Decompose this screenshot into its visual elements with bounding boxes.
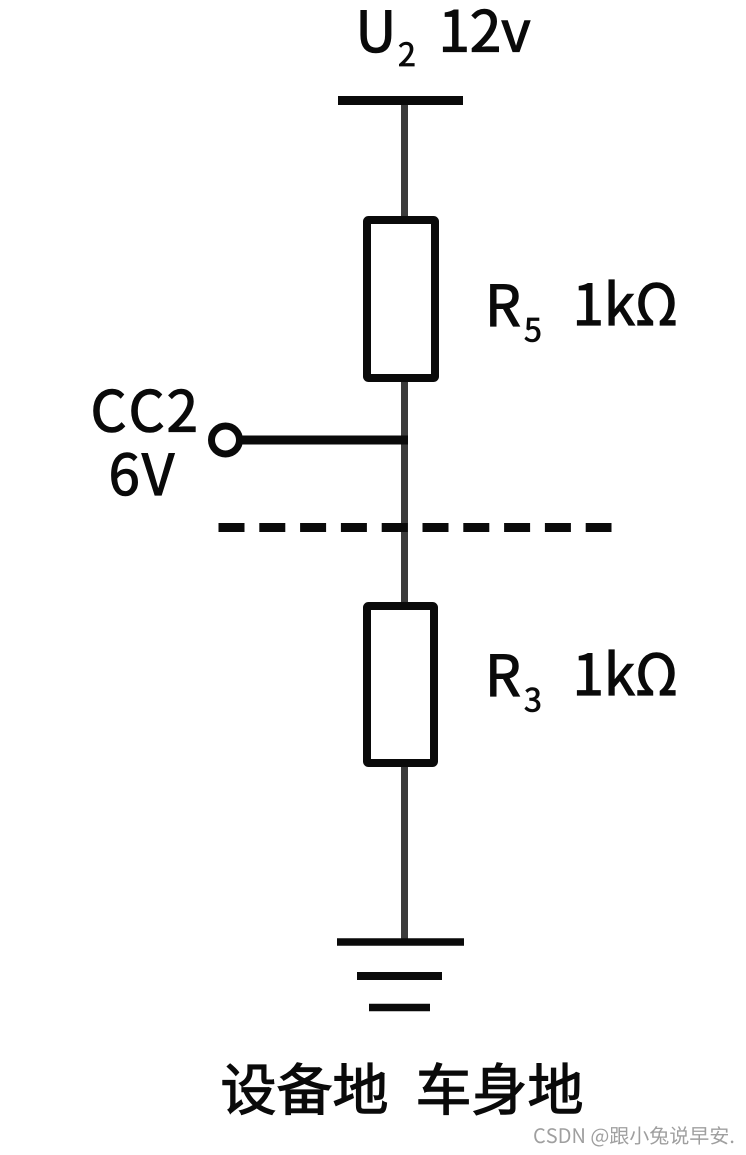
label R3 - letter R: [491, 655, 520, 696]
label U2 supply - subscript 2: [399, 42, 414, 66]
ground symbol line 2: [357, 972, 442, 980]
wire: R3 bottom to ground: [401, 763, 408, 942]
label R5 value 1kOhm: [578, 280, 676, 325]
ground symbol line 3: [369, 1004, 430, 1012]
resistor R5 body: [367, 220, 435, 378]
label R5 - letter R: [491, 285, 520, 326]
label R3 value 1kOhm: [578, 650, 676, 695]
label car body ground (che-shen-di): [419, 1063, 582, 1115]
label R3 - subscript 3: [525, 688, 540, 712]
label U2 supply - letter U: [361, 11, 391, 53]
wire: supply rail to R5 top: [401, 101, 408, 221]
label 12v value: [444, 9, 530, 51]
dashed boundary line between device ground and car body ground: [219, 523, 612, 532]
label device ground (she-bei-di): [223, 1063, 387, 1115]
node CC2 open terminal circle: [212, 426, 240, 454]
wire: CC2 terminal to divider midpoint: [239, 436, 408, 445]
resistor R3 body: [367, 606, 434, 763]
wire: R5 bottom to R3 top (through CC2 node and dashed boundary): [401, 378, 408, 606]
watermark CSDN: [534, 1126, 733, 1146]
power rail U2 12v terminal bar: [338, 96, 463, 105]
ground symbol line 1: [337, 938, 464, 946]
label CC2 node name: [94, 389, 195, 432]
label 6V value: [112, 453, 175, 496]
label R5 - subscript 5: [525, 318, 540, 342]
